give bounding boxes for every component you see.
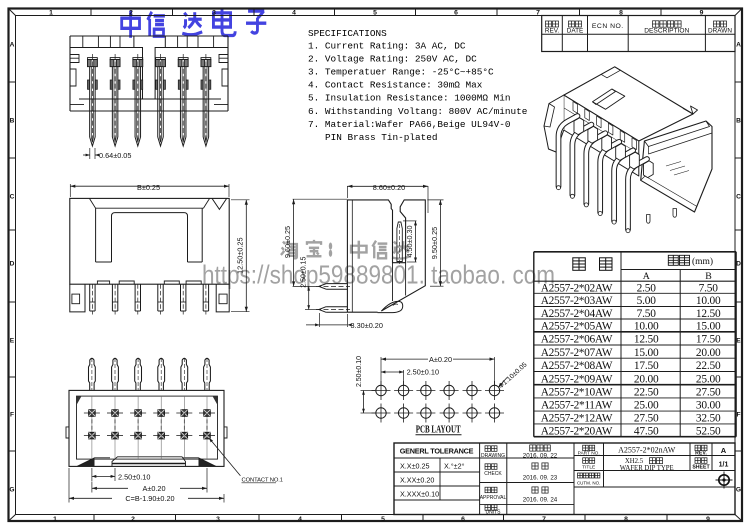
svg-text:A2557-2*06AW: A2557-2*06AW bbox=[541, 334, 613, 346]
svg-text:25.00: 25.00 bbox=[696, 373, 721, 385]
svg-text:9: 9 bbox=[706, 516, 710, 523]
svg-text:A2557-2*12AW: A2557-2*12AW bbox=[541, 413, 613, 425]
svg-text:A: A bbox=[643, 271, 650, 282]
svg-text:7.50: 7.50 bbox=[637, 308, 657, 320]
svg-text:G: G bbox=[9, 486, 14, 493]
svg-text:1/1: 1/1 bbox=[719, 461, 729, 468]
svg-text:8.60±0.20: 8.60±0.20 bbox=[373, 183, 405, 192]
svg-text:15.00: 15.00 bbox=[696, 321, 721, 333]
svg-text:4.50±0.30: 4.50±0.30 bbox=[405, 226, 414, 258]
svg-text:DRAWING: DRAWING bbox=[481, 453, 505, 459]
svg-text:C=B-1.90±0.20: C=B-1.90±0.20 bbox=[125, 494, 174, 503]
svg-text:C: C bbox=[10, 193, 15, 200]
svg-text:2: 2 bbox=[131, 516, 135, 523]
svg-text:27.50: 27.50 bbox=[696, 387, 721, 399]
svg-text:4: 4 bbox=[292, 10, 296, 17]
svg-text:X.XXX±0.10: X.XXX±0.10 bbox=[400, 489, 439, 498]
svg-text:2.50±0.10: 2.50±0.10 bbox=[407, 368, 439, 377]
svg-text:GENERL TOLERANCE: GENERL TOLERANCE bbox=[400, 447, 474, 456]
svg-text:A: A bbox=[736, 41, 741, 48]
svg-text:2.50±0.10: 2.50±0.10 bbox=[118, 472, 150, 481]
svg-text:F: F bbox=[736, 411, 740, 418]
svg-text:2.50: 2.50 bbox=[637, 282, 657, 294]
svg-text:(mm): (mm) bbox=[692, 256, 713, 267]
svg-text:6. Withstanding Voltang: 800V: 6. Withstanding Voltang: 800V AC/minute bbox=[308, 106, 528, 117]
svg-text:CHECK: CHECK bbox=[484, 471, 502, 477]
svg-text:3. Temperatuer Range: -25°C~+8: 3. Temperatuer Range: -25°C~+85°C bbox=[308, 67, 494, 78]
svg-text:REV.: REV. bbox=[695, 450, 707, 456]
svg-text:20.00: 20.00 bbox=[634, 373, 659, 385]
svg-text:DRAWN: DRAWN bbox=[708, 28, 732, 35]
svg-text:A2557-2*02nAW: A2557-2*02nAW bbox=[618, 445, 676, 454]
svg-text:12.50: 12.50 bbox=[634, 334, 659, 346]
svg-text:B: B bbox=[10, 117, 15, 124]
svg-text:12.50: 12.50 bbox=[696, 308, 721, 320]
svg-text:DESCRIPTION: DESCRIPTION bbox=[644, 28, 689, 35]
svg-text:7: 7 bbox=[542, 516, 546, 523]
svg-text:27.50: 27.50 bbox=[634, 413, 659, 425]
svg-text:3: 3 bbox=[212, 10, 216, 17]
svg-text:20.00: 20.00 bbox=[696, 347, 721, 359]
svg-text:ECN NO.: ECN NO. bbox=[592, 23, 624, 30]
svg-text:A2557-2*11AW: A2557-2*11AW bbox=[541, 400, 613, 412]
svg-text:APPROVAL: APPROVAL bbox=[480, 495, 507, 501]
svg-text:D: D bbox=[736, 260, 741, 267]
svg-text:3: 3 bbox=[216, 516, 220, 523]
svg-text:E: E bbox=[10, 337, 15, 344]
svg-text:TITLE: TITLE bbox=[582, 464, 595, 470]
svg-text:8: 8 bbox=[624, 516, 628, 523]
svg-text:10.00: 10.00 bbox=[634, 321, 659, 333]
svg-text:6: 6 bbox=[454, 10, 458, 17]
svg-text:7.50: 7.50 bbox=[699, 282, 719, 294]
svg-text:PART NO.: PART NO. bbox=[578, 450, 600, 456]
svg-text:9.60±0.25: 9.60±0.25 bbox=[283, 226, 292, 258]
svg-text:A: A bbox=[10, 41, 15, 48]
svg-text:A: A bbox=[721, 446, 727, 455]
svg-text:PIN Brass Tin-plated: PIN Brass Tin-plated bbox=[325, 132, 438, 143]
svg-text:5. Insulation Resistance: 1000: 5. Insulation Resistance: 1000MΩ Min bbox=[308, 93, 511, 104]
svg-text:5: 5 bbox=[373, 10, 377, 17]
svg-text:WAFER DIP TYPE: WAFER DIP TYPE bbox=[620, 465, 674, 472]
svg-text:17.50: 17.50 bbox=[696, 334, 721, 346]
svg-text:2016. 09. 22: 2016. 09. 22 bbox=[523, 453, 558, 460]
svg-text:15.00: 15.00 bbox=[634, 347, 659, 359]
svg-text:PCB LAYOUT: PCB LAYOUT bbox=[416, 424, 461, 435]
svg-text:A2557-2*05AW: A2557-2*05AW bbox=[541, 321, 613, 333]
svg-text:2. Voltage Rating: 250V AC, DC: 2. Voltage Rating: 250V AC, DC bbox=[308, 54, 477, 65]
svg-text:A2557-2*09AW: A2557-2*09AW bbox=[541, 373, 613, 385]
svg-text:0.64±0.05: 0.64±0.05 bbox=[99, 151, 131, 160]
svg-text:52.50: 52.50 bbox=[696, 426, 721, 438]
svg-text:32.50: 32.50 bbox=[696, 413, 721, 425]
svg-text:A2557-2*03AW: A2557-2*03AW bbox=[541, 295, 613, 307]
svg-text:G: G bbox=[736, 486, 741, 493]
svg-text:B: B bbox=[736, 117, 741, 124]
svg-text:17.50: 17.50 bbox=[634, 360, 659, 372]
svg-text:2.50±0.10: 2.50±0.10 bbox=[356, 356, 363, 387]
svg-text:C: C bbox=[736, 193, 741, 200]
svg-text:9.50±0.25: 9.50±0.25 bbox=[430, 227, 439, 259]
svg-text:B: B bbox=[705, 271, 712, 282]
svg-text:6: 6 bbox=[461, 516, 465, 523]
svg-text:A±0.20: A±0.20 bbox=[142, 484, 165, 493]
svg-text:7: 7 bbox=[536, 10, 540, 17]
svg-text:SHEET: SHEET bbox=[692, 464, 710, 470]
svg-text:A±0.20: A±0.20 bbox=[429, 355, 452, 364]
svg-text:E: E bbox=[736, 337, 741, 344]
svg-text:X.XX±0.20: X.XX±0.20 bbox=[400, 475, 434, 484]
svg-text:22.50: 22.50 bbox=[696, 360, 721, 372]
svg-text:B±0.25: B±0.25 bbox=[137, 183, 160, 192]
svg-text:25.00: 25.00 bbox=[634, 400, 659, 412]
svg-text:22.50: 22.50 bbox=[634, 387, 659, 399]
svg-text:DATE: DATE bbox=[567, 28, 584, 35]
svg-text:30.00: 30.00 bbox=[696, 400, 721, 412]
svg-text:A2557-2*10AW: A2557-2*10AW bbox=[541, 387, 613, 399]
svg-text:X.°±2°: X.°±2° bbox=[444, 461, 465, 470]
svg-text:UNITS: UNITS bbox=[486, 510, 502, 516]
svg-text:5: 5 bbox=[381, 516, 385, 523]
svg-text:47.50: 47.50 bbox=[634, 426, 659, 438]
svg-text:https://shop59889801. taobao.: https://shop59889801. taobao. com bbox=[202, 260, 555, 290]
svg-text:2016. 09. 23: 2016. 09. 23 bbox=[523, 475, 558, 482]
svg-text:SPECIFICATIONS: SPECIFICATIONS bbox=[308, 28, 387, 39]
svg-text:10.00: 10.00 bbox=[696, 295, 721, 307]
svg-text:2: 2 bbox=[129, 10, 133, 17]
svg-text:CUTM. NO.: CUTM. NO. bbox=[577, 480, 601, 485]
svg-text:1: 1 bbox=[53, 516, 57, 523]
svg-text:2016. 09. 24: 2016. 09. 24 bbox=[523, 497, 558, 504]
svg-text:D: D bbox=[10, 260, 15, 267]
svg-text:A2557-2*20AW: A2557-2*20AW bbox=[541, 426, 613, 438]
svg-text:12.50±0.25: 12.50±0.25 bbox=[236, 237, 245, 273]
svg-text:1. Current Rating: 3A AC, DC: 1. Current Rating: 3A AC, DC bbox=[308, 41, 466, 52]
svg-text:A2557-2*02AW: A2557-2*02AW bbox=[541, 282, 613, 294]
svg-text:4: 4 bbox=[298, 516, 302, 523]
svg-text:REV.: REV. bbox=[545, 28, 560, 35]
svg-text:A2557-2*07AW: A2557-2*07AW bbox=[541, 347, 613, 359]
svg-text:3.30±0.20: 3.30±0.20 bbox=[351, 321, 383, 330]
svg-text:7. Material:Wafer PA66,Beige U: 7. Material:Wafer PA66,Beige UL94V-0 bbox=[308, 119, 511, 130]
svg-text:F: F bbox=[10, 411, 14, 418]
svg-text:2.50±0.15: 2.50±0.15 bbox=[300, 257, 307, 288]
svg-text:1: 1 bbox=[49, 10, 53, 17]
svg-text:5.00: 5.00 bbox=[637, 295, 657, 307]
svg-text:X.X±0.25: X.X±0.25 bbox=[400, 461, 430, 470]
svg-text:A2557-2*08AW: A2557-2*08AW bbox=[541, 360, 613, 372]
svg-text:A2557-2*04AW: A2557-2*04AW bbox=[541, 308, 613, 320]
svg-text:4. Contact Resistance: 30mΩ Ma: 4. Contact Resistance: 30mΩ Max bbox=[308, 80, 483, 91]
